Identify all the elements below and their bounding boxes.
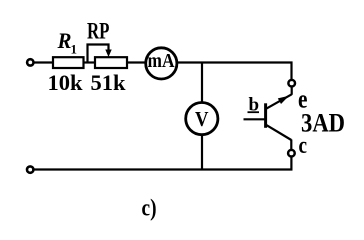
voltmeter V <box>186 103 218 135</box>
terminal e <box>288 80 295 87</box>
svg-text:R: R <box>57 28 72 53</box>
emitter lead <box>291 87 293 95</box>
bottom wire <box>34 168 292 170</box>
wire (voltmeter branch top) <box>201 63 203 104</box>
svg-text:mA: mA <box>148 50 175 72</box>
wire (input to R1) <box>34 61 54 63</box>
potentiometer RP wiper lead <box>88 45 109 63</box>
transistor bar <box>264 103 267 128</box>
ammeter mA <box>146 48 177 79</box>
wire (voltmeter branch bottom) <box>201 135 203 171</box>
wire (R1 to RP) <box>84 61 96 63</box>
base lead <box>244 118 266 120</box>
wire (c terminal to bottom wire) <box>290 157 292 171</box>
terminal c <box>288 150 295 157</box>
terminal (bottom-left input) <box>27 166 33 172</box>
svg-text:c): c) <box>142 196 157 222</box>
svg-text:1: 1 <box>71 42 78 57</box>
svg-text:51k: 51k <box>91 70 127 95</box>
collector lead <box>266 125 291 140</box>
wire (ammeter to right corner) <box>177 61 293 63</box>
svg-text:V: V <box>195 107 209 131</box>
potentiometer RP wiper arrowhead <box>105 50 111 58</box>
wire (RP to ammeter) <box>127 61 147 63</box>
potentiometer RP body <box>95 57 127 68</box>
emitter arrowhead <box>278 96 289 104</box>
svg-text:RP: RP <box>87 19 110 44</box>
resistor R1 <box>53 57 84 68</box>
terminal (top-left input) <box>27 59 33 65</box>
wire (right drop to e terminal) <box>290 62 292 80</box>
svg-text:10k: 10k <box>48 70 84 95</box>
svg-text:3AD: 3AD <box>301 109 345 138</box>
